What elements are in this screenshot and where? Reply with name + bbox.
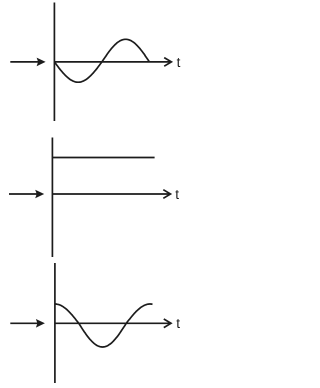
plot 2 DC level line <box>52 157 154 159</box>
plot 2 time axis <box>52 190 170 199</box>
plot 1 vertical axis <box>53 3 55 122</box>
plot 1 sine wave (negative half first) <box>54 39 149 82</box>
plot 1 input arrow <box>10 58 45 67</box>
plot 2 input arrow <box>9 190 44 199</box>
svg-text:t: t <box>177 55 181 70</box>
plot 2 vertical axis <box>51 138 53 258</box>
svg-text:t: t <box>176 316 180 331</box>
plot 3 input arrow <box>10 319 45 328</box>
plot 1 time axis <box>54 58 171 67</box>
plot 3 cosine wave (starts at crest) <box>55 304 153 347</box>
plot 3 time axis <box>55 319 171 328</box>
svg-text:t: t <box>175 187 179 202</box>
plot 3 vertical axis <box>54 263 56 383</box>
